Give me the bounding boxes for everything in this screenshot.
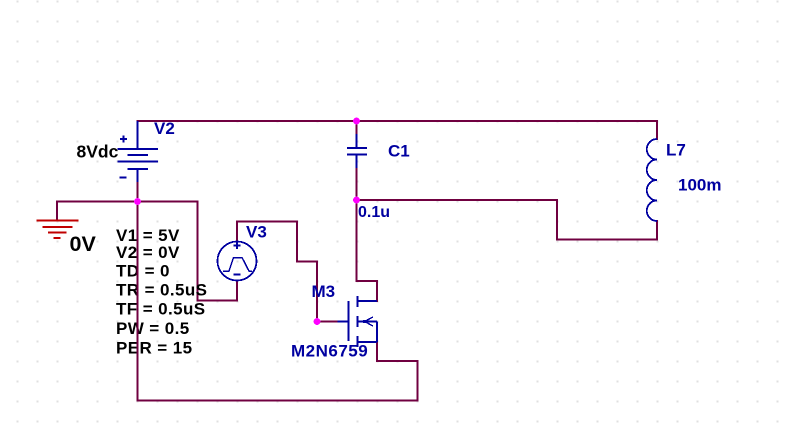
battery V2 <box>118 121 159 182</box>
wire L7 bottom stub <box>656 221 658 240</box>
wire C1 bottom to M3 drain <box>357 167 378 301</box>
capacitor C1 <box>347 134 367 168</box>
source pin <box>358 341 378 343</box>
wire L7 top stub <box>656 121 658 139</box>
wire V3 minus loop <box>198 202 238 301</box>
gate bar <box>348 301 350 341</box>
inductor L7 <box>647 139 657 221</box>
wire V2 minus to junction <box>137 181 139 202</box>
wire V3 plus to M3 gate <box>237 222 338 322</box>
bulk pin with arrow <box>358 321 378 323</box>
wire L7 bottom to riser <box>357 200 658 240</box>
bulk-source tie <box>376 322 378 343</box>
svg-text:PER = 15: PER = 15 <box>116 339 192 358</box>
wire top net: V2+ to C1 to L7 <box>138 120 658 122</box>
svg-text:100m: 100m <box>678 176 721 195</box>
channel dashes <box>357 296 359 307</box>
wire left loop vertical (drawn over text) <box>137 202 139 401</box>
mosfet M3 <box>338 296 378 347</box>
wire ground branch <box>57 202 198 221</box>
wire M3 source to bottom loop <box>138 202 418 401</box>
junction dot C1 top <box>353 118 360 125</box>
svg-text:0.1u: 0.1u <box>358 204 390 221</box>
svg-text:TF = 0.5uS: TF = 0.5uS <box>116 300 206 319</box>
junction dot C1 bottom <box>353 197 360 204</box>
drain pin <box>358 300 378 302</box>
svg-text:M2N6759: M2N6759 <box>291 342 368 361</box>
wire C1 top stub <box>356 121 358 135</box>
svg-text:TR = 0.5uS: TR = 0.5uS <box>116 281 207 300</box>
svg-text:C1: C1 <box>388 142 410 161</box>
svg-text:L7: L7 <box>666 141 686 160</box>
svg-text:V2 = 0V: V2 = 0V <box>116 243 180 262</box>
parameter text block <box>116 226 207 358</box>
svg-text:0V: 0V <box>70 232 97 256</box>
svg-text:PW = 0.5: PW = 0.5 <box>116 319 190 338</box>
junction dot M3 gate <box>314 318 321 325</box>
gate pin <box>338 321 349 323</box>
ground 0 symbol <box>37 221 79 239</box>
svg-text:V3: V3 <box>246 223 267 242</box>
svg-text:M3: M3 <box>312 282 336 301</box>
junction dot V2 minus <box>134 198 141 205</box>
svg-text:TD = 0: TD = 0 <box>116 262 170 281</box>
svg-text:V2: V2 <box>154 119 175 138</box>
svg-text:8Vdc: 8Vdc <box>77 142 119 162</box>
pulse source V3 <box>218 242 257 281</box>
